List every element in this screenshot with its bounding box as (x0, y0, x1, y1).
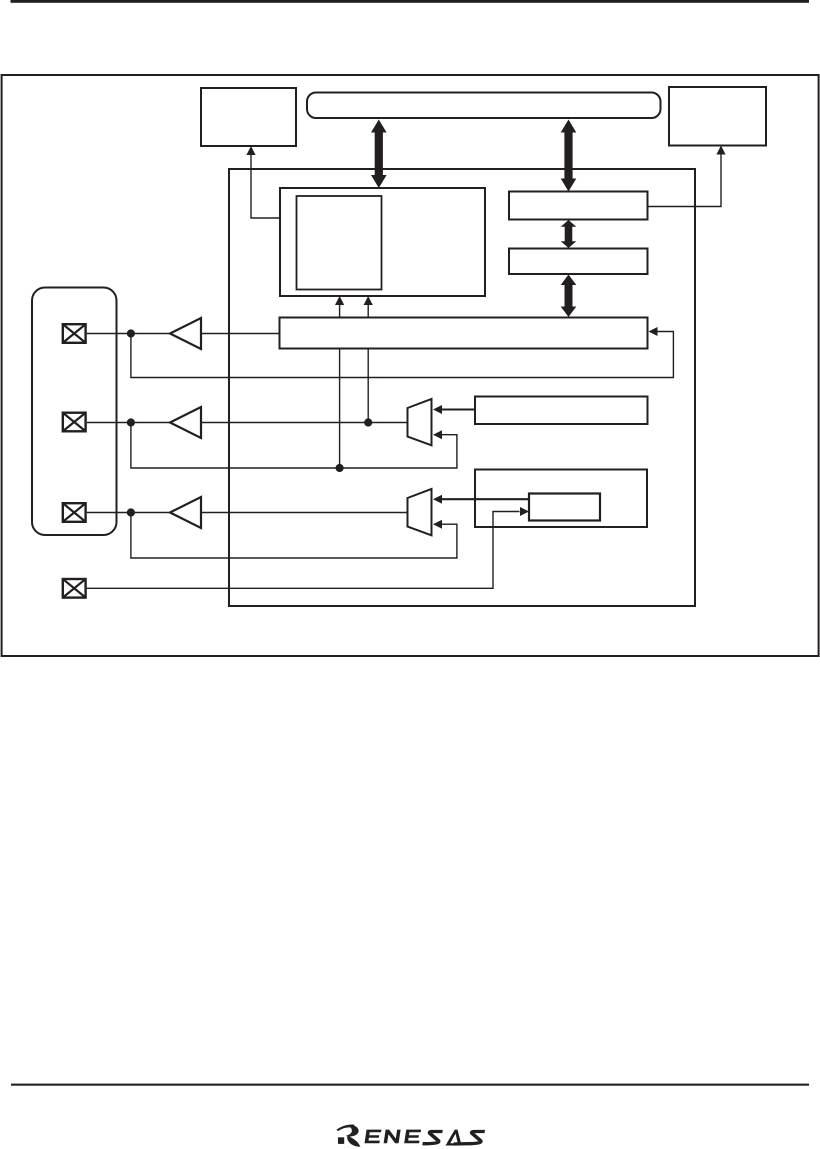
wire: bus interface up to controller (right) (367, 305, 369, 318)
arrowhead left into mux 2 upper input (433, 495, 442, 504)
Renesas logo (336, 1124, 485, 1146)
wire: bus interface up to controller (left) (339, 305, 341, 318)
arrowhead up into controller (right) (364, 296, 373, 305)
footer rule (11, 1084, 809, 1086)
thick bus arrow: internal bus to register A (561, 120, 577, 192)
wire: buffer 3 to mux 2 output (201, 512, 408, 514)
wire: data register to mux 1 upper input (441, 408, 475, 410)
arrowhead left into mux 2 lower input (433, 520, 442, 529)
buffer 1 (input buffer triangle) (170, 318, 201, 349)
wire: pin 3 to buffer 3 (87, 512, 170, 514)
pin P4 (crossed square) (63, 579, 86, 598)
wire: pin 2 readback to mux 1 lower input (131, 423, 457, 469)
mux 1 (408, 399, 432, 445)
arrowhead up into port control box (716, 146, 725, 155)
wire: pin 2 to buffer 2 (87, 422, 170, 424)
box: data register (row 2) (475, 397, 648, 425)
box: register B (509, 249, 648, 275)
module inner frame (229, 169, 695, 606)
wire: buffer 2 to mux 1 output (201, 422, 408, 424)
wire: buffer 1 to bus interface (201, 333, 280, 335)
junction node J3 (pin3 line) (127, 508, 135, 516)
wire: register A to port control box (648, 154, 722, 207)
arrowhead right into output latch (520, 507, 529, 516)
box: control register (inside controller) (297, 196, 382, 290)
box: output unit (row 3 outer) (475, 470, 647, 528)
arrowhead up into interrupt box (246, 146, 255, 155)
arrowhead up into controller (left) (335, 296, 344, 305)
wire: pin 3 readback to mux 2 lower input (131, 513, 457, 559)
wire: pin 4 to output latch (87, 512, 520, 589)
thick bus arrow: register A to register B (561, 220, 577, 248)
box: register A (upper right) (509, 192, 648, 220)
pin P3 (crossed square) (63, 503, 86, 522)
thick bus arrow: internal bus to controller (371, 120, 387, 189)
arrowhead left into mux 1 upper input (433, 405, 442, 414)
thick bus arrow: register B to bus interface (561, 275, 577, 318)
wire: below bus interface down to node J4 (367, 349, 369, 423)
junction node J1 (pin1 line) (127, 329, 135, 337)
box: controller block (280, 188, 485, 296)
arrowhead left into mux 1 lower input (433, 430, 442, 439)
buffer 3 (170, 497, 201, 528)
pin P2 (crossed square) (63, 413, 86, 432)
wire: pin 1 readback into bus interface right side (131, 332, 674, 378)
port pin group (rounded) (32, 288, 117, 536)
box: interrupt controller (top-left) (201, 88, 296, 146)
wire: output latch to mux 2 upper input (441, 498, 529, 500)
internal data bus (rounded) (307, 93, 661, 119)
junction node J4 (mux1 output tap) (364, 418, 372, 426)
pin P1 (crossed square) (63, 324, 86, 343)
box: port control (top-right) (669, 87, 766, 146)
header rule (11, 0, 810, 3)
wire: below bus interface down to node J5 (339, 349, 341, 469)
junction node J2 (pin2 line) (127, 418, 135, 426)
box: bus interface (wide) (280, 318, 648, 349)
mux 2 (408, 489, 432, 535)
arrowhead left into bus interface (649, 327, 658, 336)
wire: pin 1 to buffer 1 (87, 333, 170, 335)
box: output latch (row 3 inner) (529, 494, 600, 521)
wire: controller to interrupt box (251, 154, 280, 218)
figure outer frame (2, 75, 819, 656)
junction node J5 (readback tap) (336, 464, 344, 472)
buffer 2 (170, 407, 201, 438)
